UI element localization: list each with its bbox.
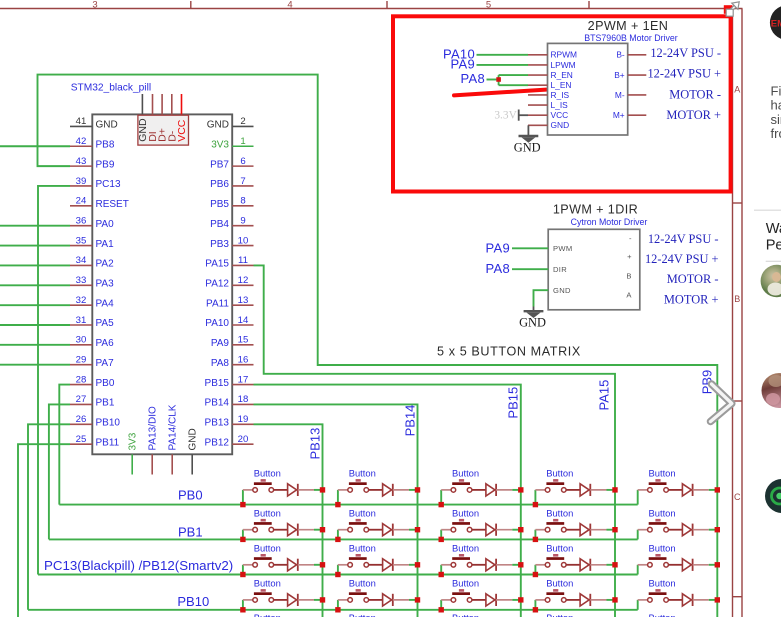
junction r2c3 row (439, 537, 444, 542)
U1 pin 11 PA15 (205, 255, 253, 269)
diode D43 (486, 594, 512, 606)
svg-text:STM32_black_pill: STM32_black_pill (71, 82, 151, 93)
U1 top pin GND (137, 94, 149, 142)
wire PA8 to DIR (512, 268, 548, 270)
U1 pin 26 PB10 (70, 414, 120, 428)
svg-text:12-24V PSU +: 12-24V PSU + (645, 252, 719, 266)
wire diode to column r1c3 (512, 489, 521, 491)
collapse chevron (711, 384, 732, 422)
U1 pin 24 RESET (70, 196, 129, 210)
svg-text:VCC: VCC (551, 110, 569, 120)
junction r4c4 row (533, 607, 538, 612)
svg-text:L_EN: L_EN (551, 80, 572, 90)
svg-text:26: 26 (76, 414, 87, 425)
button S15 (638, 468, 683, 493)
svg-text:25: 25 (76, 434, 87, 445)
svg-text:Button: Button (254, 468, 281, 479)
junction r3c4 row (533, 572, 538, 577)
diode D21 (288, 524, 314, 536)
svg-text:L_IS: L_IS (551, 100, 569, 110)
wire riser r4c3 (440, 600, 442, 610)
svg-text:9: 9 (240, 216, 245, 227)
svg-text:35: 35 (76, 235, 87, 246)
svg-text:10: 10 (238, 235, 249, 246)
U1 bottom pin PA14/CLK (168, 404, 179, 474)
svg-text:PA2: PA2 (96, 259, 115, 270)
svg-text:PB10: PB10 (177, 594, 209, 609)
wire diode to column r3c4 (607, 564, 616, 566)
svg-text:PA9: PA9 (485, 240, 510, 255)
wire riser r4c1 (242, 600, 244, 610)
wire diode to column r1c5 (709, 489, 718, 491)
button S24 (535, 508, 580, 533)
svg-text:PA0: PA0 (96, 219, 115, 230)
U1 pin 35 PA1 (70, 235, 114, 249)
U1 pin 25 PB11 (70, 434, 120, 448)
svg-text:PA9: PA9 (450, 56, 475, 71)
U1 pin 27 PB1 (70, 394, 115, 408)
annotation corner handle (724, 5, 733, 14)
U2 pin B+ (614, 70, 646, 80)
svg-text:MOTOR +: MOTOR + (664, 292, 719, 306)
panel separator (754, 209, 781, 211)
wire PA8 tee (487, 75, 529, 85)
U1 pin 6 PB7 (210, 156, 253, 170)
svg-text:Button: Button (254, 612, 281, 617)
wire diode to column r2c4 (607, 529, 616, 531)
annotation red rectangle (393, 16, 731, 191)
svg-text:Button: Button (452, 612, 479, 617)
U1 pin 36 PA0 (70, 216, 114, 230)
U1 pin 12 PA12 (205, 275, 253, 289)
wire PA9 to LPWM (477, 64, 529, 66)
wire PA0 to left edge (0, 225, 70, 227)
svg-text:Button: Button (649, 468, 676, 479)
svg-text:42: 42 (76, 136, 87, 147)
svg-text:PB14: PB14 (403, 405, 418, 437)
wire diode to column r3c5 (709, 564, 718, 566)
svg-text:EMI: EMI (771, 19, 781, 30)
svg-text:34: 34 (76, 255, 87, 266)
mouse cursor icon (726, 2, 739, 16)
svg-text:11: 11 (238, 255, 248, 266)
svg-text:20: 20 (238, 434, 249, 445)
junction r2c4 column (612, 527, 617, 532)
junction r1c2 column (415, 487, 420, 492)
U2 pin M+ (613, 110, 646, 120)
svg-text:GND: GND (188, 428, 199, 450)
junction r1c1 row (240, 502, 245, 507)
svg-text:C: C (734, 492, 741, 502)
svg-text:8: 8 (240, 196, 245, 207)
svg-text:4: 4 (287, 0, 292, 10)
wire PB9 net loop (38, 75, 718, 617)
svg-text:PB1: PB1 (178, 524, 203, 539)
wire riser r3c1 (242, 565, 244, 575)
svg-text:Button: Button (649, 578, 676, 589)
wire PB10 net drop (28, 424, 70, 610)
U1 pin 14 PA10 (205, 315, 253, 329)
svg-text:Button: Button (254, 543, 281, 554)
svg-text:Button: Button (349, 508, 376, 519)
button S43 (441, 578, 486, 603)
module U3 Cytron body (548, 229, 640, 309)
button S41 (243, 578, 288, 603)
diode D22 (383, 524, 409, 536)
wire PA15 net (254, 265, 616, 617)
panel avatar dark EMI (770, 5, 781, 40)
svg-text:PA4: PA4 (96, 298, 115, 309)
svg-text:PB0: PB0 (178, 487, 203, 502)
svg-text:Button: Button (546, 612, 573, 617)
junction r1c2 row (335, 502, 340, 507)
svg-text:PB6: PB6 (210, 179, 229, 190)
wire PA9 to PWM (512, 247, 548, 249)
diode D33 (486, 559, 512, 571)
power flag 3.3V (494, 109, 528, 121)
svg-text:PB9: PB9 (96, 159, 115, 170)
svg-text:PA13/DIO: PA13/DIO (148, 406, 159, 450)
svg-text:A: A (734, 85, 740, 95)
svg-text:PA8: PA8 (485, 261, 510, 276)
svg-text:Button: Button (349, 578, 376, 589)
svg-text:B+: B+ (614, 70, 625, 80)
junction r2c4 row (533, 537, 538, 542)
wire PA3 to left edge (0, 284, 70, 286)
diode D23 (486, 524, 512, 536)
U1 bottom pin 3V3 (128, 432, 139, 474)
U1 pin 20 PB12 (205, 434, 254, 448)
U2 pin R_EN (528, 70, 573, 80)
svg-text:12-24V PSU -: 12-24V PSU - (650, 46, 721, 60)
diode D45 (682, 594, 708, 606)
U2 pin VCC (528, 110, 568, 120)
svg-text:Button: Button (254, 508, 281, 519)
svg-text:Button: Button (649, 612, 676, 617)
svg-text:MOTOR +: MOTOR + (666, 108, 721, 122)
wire riser r1c1 (242, 490, 244, 505)
button S35 (638, 543, 683, 568)
ground GND (Cytron) (519, 307, 546, 330)
svg-text:Button: Button (546, 578, 573, 589)
wire diode to column r4c4 (607, 599, 616, 601)
wire PA4 to left edge (0, 304, 70, 306)
wire PA1 to left edge (0, 245, 70, 247)
wire diode to column r1c4 (607, 489, 616, 491)
junction r4c5 column (715, 597, 720, 602)
diode D24 (580, 524, 606, 536)
svg-text:18: 18 (238, 394, 249, 405)
svg-text:R_EN: R_EN (551, 70, 573, 80)
button S21 (243, 508, 288, 533)
junction r3c3 column (518, 562, 523, 567)
U1 pin 31 PA5 (70, 315, 114, 329)
U1 pin 17 PB15 (205, 374, 254, 388)
wire PB13 net (254, 424, 323, 617)
svg-text:12: 12 (238, 275, 249, 286)
svg-text:have: have (771, 98, 781, 113)
svg-text:PA8: PA8 (460, 71, 485, 86)
svg-text:PA15: PA15 (597, 380, 612, 411)
svg-text:MOTOR -: MOTOR - (669, 88, 721, 102)
U1 pin 33 PA3 (70, 275, 114, 289)
U2 pin B- (616, 50, 646, 60)
U1 bottom pin GND (188, 428, 199, 474)
junction r3c2 row (335, 572, 340, 577)
button S32 (338, 543, 383, 568)
junction r4c3 row (439, 607, 444, 612)
junction r1c3 column (518, 487, 523, 492)
diode D34 (580, 559, 606, 571)
svg-text:+: + (627, 252, 632, 261)
wire PB1 net drop (49, 404, 70, 539)
svg-text:LPWM: LPWM (551, 60, 576, 70)
svg-text:24: 24 (76, 196, 87, 207)
junction r4c4 column (612, 597, 617, 602)
wire diode to column r2c3 (512, 529, 521, 531)
wire riser r1c4 (534, 490, 536, 505)
svg-text:PA12: PA12 (205, 278, 229, 289)
U1 pin 15 PA9 (211, 335, 254, 349)
button S13 (441, 468, 486, 493)
wire row PB10 (28, 609, 638, 611)
svg-text:13: 13 (238, 295, 249, 306)
U1 pin 34 PA2 (70, 255, 114, 269)
svg-text:3V3: 3V3 (211, 139, 229, 150)
svg-text:3: 3 (92, 0, 97, 10)
button S33 (441, 543, 486, 568)
svg-text:MOTOR -: MOTOR - (667, 272, 719, 286)
svg-text:Way: Way (766, 221, 781, 237)
diode D11 (288, 484, 314, 496)
wire diode to column r4c2 (409, 599, 418, 601)
svg-text:PB10: PB10 (96, 418, 121, 429)
svg-text:3V3: 3V3 (128, 432, 139, 450)
U1 pin 29 PA7 (70, 355, 114, 369)
svg-text:PC13: PC13 (96, 179, 121, 190)
U1 pin 18 PB14 (205, 394, 254, 408)
wire PB0 net drop (59, 385, 70, 505)
junction r1c5 column (715, 487, 720, 492)
wire riser r4c4 (534, 600, 536, 610)
U2 pin LPWM (528, 60, 576, 70)
svg-text:from: from (771, 126, 781, 141)
button S14 (535, 468, 580, 493)
svg-text:Per: Per (766, 238, 781, 254)
svg-text:PB4: PB4 (210, 219, 229, 230)
junction r3c1 row (240, 572, 245, 577)
wire diode to column r1c1 (314, 489, 323, 491)
wire riser r2c5 (637, 530, 639, 540)
svg-text:B: B (734, 294, 740, 304)
svg-text:3.3V: 3.3V (494, 109, 517, 121)
junction r3c5 column (715, 562, 720, 567)
svg-text:PA3: PA3 (96, 278, 115, 289)
diode D14 (580, 484, 606, 496)
svg-text:Button: Button (649, 508, 676, 519)
wire diode to column r2c2 (409, 529, 418, 531)
svg-text:PB13: PB13 (205, 418, 230, 429)
junction r4c3 column (518, 597, 523, 602)
svg-text:16: 16 (238, 355, 249, 366)
junction PA8 (496, 77, 501, 82)
button S45 (638, 578, 683, 603)
junction r1c4 row (533, 502, 538, 507)
wire GND (Cytron) (534, 290, 549, 306)
button S42 (338, 578, 383, 603)
panel name text (766, 221, 781, 254)
button S34 (535, 543, 580, 568)
wire diode to column r2c1 (314, 529, 323, 531)
wire diode to column r2c5 (709, 529, 718, 531)
wire PA10 to RPWM (477, 54, 529, 56)
wire riser r3c5 (637, 565, 639, 575)
svg-text:1PWM + 1DIR: 1PWM + 1DIR (553, 203, 638, 217)
diode D12 (383, 484, 409, 496)
svg-text:5 x 5 BUTTON MATRIX: 5 x 5 BUTTON MATRIX (437, 345, 581, 359)
wire row PB0 (59, 504, 637, 506)
button S44 (535, 578, 580, 603)
U2 pin L_IS (528, 100, 568, 110)
diode D41 (288, 594, 314, 606)
svg-text:7: 7 (240, 176, 245, 187)
wire riser r1c3 (440, 490, 442, 505)
wire PB14 net (254, 404, 418, 617)
U1 pin 10 PB3 (210, 235, 253, 249)
wire riser r2c1 (242, 530, 244, 540)
svg-text:28: 28 (76, 374, 87, 385)
panel paragraph text (771, 83, 781, 141)
U1 pin 1 3V3 (211, 136, 253, 150)
button S25 (638, 508, 683, 533)
svg-text:30: 30 (76, 335, 87, 346)
svg-text:PB12: PB12 (205, 437, 230, 448)
svg-text:19: 19 (238, 414, 249, 425)
svg-text:PB8: PB8 (96, 139, 115, 150)
svg-text:PA10: PA10 (205, 318, 229, 329)
U1 pin 28 PB0 (70, 374, 115, 388)
junction r4c1 column (320, 597, 325, 602)
MCU U1 STM32_black_pill body (92, 114, 232, 454)
svg-text:PB11: PB11 (96, 437, 120, 448)
svg-text:36: 36 (76, 216, 87, 227)
svg-text:BTS7960B Motor Driver: BTS7960B Motor Driver (584, 33, 677, 43)
wire riser r2c4 (534, 530, 536, 540)
junction r1c3 row (439, 502, 444, 507)
wire PB8 to left edge (0, 145, 70, 147)
U2 pin L_EN (528, 80, 571, 90)
button S31 (243, 543, 288, 568)
svg-text:B: B (626, 272, 631, 281)
wire PB15 net (254, 385, 521, 617)
svg-text:1: 1 (240, 136, 245, 147)
wire PB11 net drop (18, 444, 70, 617)
svg-text:PB5: PB5 (210, 199, 229, 210)
svg-text:PA7: PA7 (96, 358, 115, 369)
svg-text:PA5: PA5 (96, 318, 115, 329)
U1 top pin DI (147, 94, 159, 142)
svg-text:PB0: PB0 (96, 378, 115, 389)
wire riser r3c2 (337, 565, 339, 575)
svg-text:First: First (771, 83, 781, 98)
wire riser r2c3 (440, 530, 442, 540)
wire diode to column r4c3 (512, 599, 521, 601)
U1 bottom pin PA13/DIO (148, 406, 159, 474)
svg-text:GND: GND (519, 315, 546, 329)
ground GND (BTS) (514, 125, 541, 154)
svg-text:GND: GND (207, 120, 229, 131)
svg-text:Button: Button (452, 468, 479, 479)
svg-text:GND: GND (553, 286, 571, 295)
wire diode to column r1c2 (409, 489, 418, 491)
svg-text:14: 14 (238, 315, 249, 326)
diode D35 (682, 559, 708, 571)
junction r1c4 column (612, 487, 617, 492)
U2 pin GND (528, 120, 569, 130)
U1 pin 41 GND (70, 116, 118, 130)
diode D32 (383, 559, 409, 571)
U1 pin 43 PB9 (70, 156, 115, 170)
U1 pin 8 PB5 (210, 196, 253, 210)
svg-text:PB15: PB15 (205, 378, 230, 389)
svg-text:Cytron Motor Driver: Cytron Motor Driver (571, 217, 648, 227)
junction r3c3 row (439, 572, 444, 577)
svg-text:31: 31 (76, 315, 87, 326)
U1 pin 13 PA11 (206, 295, 253, 309)
junction r4c1 row (240, 607, 245, 612)
U1 top pin D- (166, 94, 178, 142)
junction r1c1 column (320, 487, 325, 492)
svg-text:PWM: PWM (553, 244, 572, 253)
junction r2c1 column (320, 527, 325, 532)
junction r2c2 row (335, 537, 340, 542)
svg-text:Button: Button (546, 508, 573, 519)
svg-text:RESET: RESET (96, 199, 129, 210)
svg-text:PA6: PA6 (96, 338, 115, 349)
svg-text:Button: Button (452, 508, 479, 519)
USB pin group box (138, 115, 189, 145)
svg-text:PB13: PB13 (308, 428, 323, 460)
U2 pin M- (615, 90, 646, 100)
wire diode to column r3c3 (512, 564, 521, 566)
svg-text:Button: Button (254, 578, 281, 589)
svg-text:Button: Button (452, 543, 479, 554)
module U2 BTS7960B body (548, 43, 628, 135)
diode D42 (383, 594, 409, 606)
wire row PC13row (38, 574, 638, 576)
button S12 (338, 468, 383, 493)
svg-text:39: 39 (76, 176, 87, 187)
svg-text:32: 32 (76, 295, 87, 306)
junction r2c2 column (415, 527, 420, 532)
svg-text:12-24V PSU -: 12-24V PSU - (648, 232, 719, 246)
diode D31 (288, 559, 314, 571)
junction r3c4 column (612, 562, 617, 567)
wire PC13 net (38, 186, 70, 575)
svg-text:GND: GND (514, 140, 541, 154)
junction r3c1 column (320, 562, 325, 567)
U1 top pin D+ (157, 94, 169, 142)
svg-text:5: 5 (486, 0, 491, 10)
svg-text:6: 6 (240, 156, 245, 167)
junction r4c2 column (415, 597, 420, 602)
wire riser r3c4 (534, 565, 536, 575)
U1 pin 9 PB4 (210, 216, 253, 230)
svg-text:41: 41 (76, 116, 87, 127)
junction r4c2 row (335, 607, 340, 612)
svg-text:15: 15 (238, 335, 249, 346)
svg-text:2PWM + 1EN: 2PWM + 1EN (588, 19, 669, 33)
